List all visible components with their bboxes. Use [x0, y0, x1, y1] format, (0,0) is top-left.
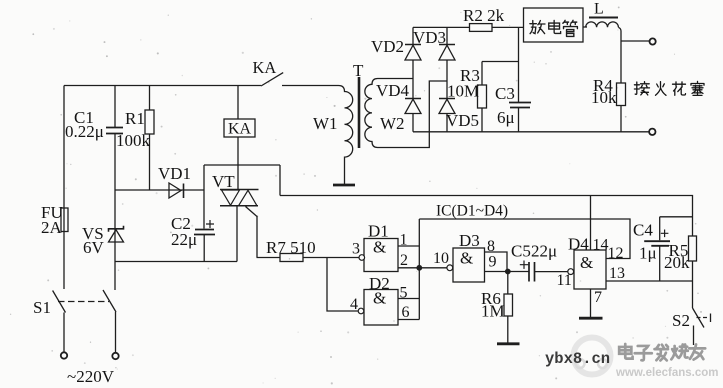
svg-text:W2: W2 [380, 114, 405, 133]
svg-text:7: 7 [594, 289, 602, 306]
svg-text:2A: 2A [41, 218, 63, 237]
svg-text:22μ: 22μ [171, 230, 197, 249]
svg-text:www.elecfans.com: www.elecfans.com [615, 367, 718, 379]
svg-text:&: & [373, 289, 386, 308]
svg-text:R7 510: R7 510 [266, 238, 316, 257]
svg-text:3: 3 [352, 241, 360, 258]
svg-text:KA: KA [253, 58, 277, 77]
svg-text:22μ: 22μ [531, 242, 557, 261]
svg-text:&: & [373, 238, 386, 257]
svg-text:1M: 1M [481, 302, 505, 321]
svg-text:D4: D4 [568, 235, 589, 254]
svg-text:ybx8.cn: ybx8.cn [545, 350, 610, 368]
svg-text:&: & [580, 253, 593, 272]
svg-text:10k: 10k [591, 88, 617, 107]
svg-text:6μ: 6μ [497, 108, 515, 127]
svg-text:13: 13 [609, 265, 625, 282]
svg-text:C4: C4 [633, 221, 653, 240]
svg-text:T: T [353, 61, 364, 80]
svg-text:R1: R1 [125, 109, 145, 128]
svg-text:11: 11 [557, 272, 572, 289]
svg-text:KA: KA [228, 121, 252, 138]
svg-text:20k: 20k [664, 253, 690, 272]
svg-text:~220V: ~220V [67, 367, 115, 386]
svg-text:8: 8 [487, 238, 495, 255]
svg-text:VT: VT [212, 172, 235, 191]
svg-text:D3: D3 [459, 231, 480, 250]
svg-text:IC(D1~D4): IC(D1~D4) [436, 203, 508, 220]
svg-text:0.22μ: 0.22μ [65, 122, 104, 141]
svg-text:VD3: VD3 [413, 28, 446, 47]
svg-text:S2: S2 [672, 311, 690, 330]
svg-text:10M: 10M [447, 82, 479, 101]
svg-text:C5: C5 [511, 242, 531, 261]
svg-text:R2 2k: R2 2k [463, 6, 505, 25]
svg-text:14: 14 [593, 237, 609, 254]
svg-text:L: L [594, 1, 604, 18]
svg-text:5: 5 [400, 285, 408, 302]
svg-text:C3: C3 [495, 84, 515, 103]
svg-text:100k: 100k [116, 131, 151, 150]
svg-text:4: 4 [350, 296, 358, 313]
svg-text:9: 9 [489, 254, 497, 271]
svg-text:6V: 6V [83, 238, 105, 257]
svg-text:2: 2 [400, 252, 408, 269]
svg-text:1: 1 [400, 232, 408, 249]
svg-text:VD5: VD5 [446, 111, 479, 130]
svg-text:S1: S1 [33, 298, 51, 317]
svg-text:&: & [460, 249, 473, 268]
svg-text:10: 10 [433, 250, 449, 267]
svg-text:VD1: VD1 [158, 164, 191, 183]
svg-text:12: 12 [608, 245, 624, 262]
svg-text:6: 6 [402, 304, 410, 321]
svg-text:VD4: VD4 [376, 81, 410, 100]
svg-text:1μ: 1μ [639, 244, 657, 263]
svg-text:W1: W1 [313, 114, 338, 133]
svg-text:VD2: VD2 [371, 37, 404, 56]
